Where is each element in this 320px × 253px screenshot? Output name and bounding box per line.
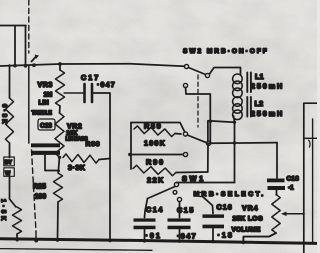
junction x210 y121 (209, 120, 212, 123)
capacitor C17 plate left (83, 84, 86, 102)
switch SW1 arm (148, 187, 176, 199)
capacitor C17 plate right (91, 84, 94, 102)
svg-text:C13: C13 (40, 123, 52, 130)
terminal box 2 (4, 168, 15, 177)
svg-text:6·8K: 6·8K (1, 104, 7, 126)
svg-text:VR4: VR4 (242, 206, 259, 213)
svg-text:250mH: 250mH (251, 82, 284, 91)
svg-text:LIN: LIN (39, 100, 50, 107)
wire node cluster horizontal y121 (208, 121, 235, 123)
junction on rail at x16 (13, 64, 17, 68)
potentiometer VR3 (56, 70, 65, 106)
resistor 6.8K (left column upper) (6, 98, 14, 143)
svg-text:R90: R90 (146, 158, 165, 167)
wire VR3 wiper to C17 (64, 92, 83, 94)
wire R89/R90 left vertical (130, 123, 132, 170)
switch contact R89 (183, 132, 187, 136)
svg-text:L1: L1 (255, 72, 264, 81)
junction node P on rail (32, 63, 36, 67)
switch SW2 pole1 contact (184, 64, 188, 68)
enclosure box right (304, 103, 317, 253)
dashed gang line SW2-SW1 (197, 75, 199, 127)
svg-text:1·5K: 1·5K (0, 199, 6, 223)
wire C14 top lead (145, 199, 148, 218)
wire common vertical up (207, 121, 209, 143)
svg-text:22K: 22K (147, 176, 165, 185)
wire VR4 bottom lead (243, 233, 276, 243)
junction x234 y143 (233, 141, 236, 144)
wire R88 right lead (99, 159, 110, 160)
resistor R88 (63, 154, 99, 163)
junction common node (207, 141, 211, 145)
wire VR2 to R25 (58, 157, 59, 173)
junction R25 / bottom rail (56, 239, 59, 242)
wire SW2 to L1 (210, 68, 241, 75)
wire common down to R90 (207, 143, 209, 172)
capacitor C13 plate bottom (31, 151, 60, 155)
wire L2/SW1 vertical (234, 122, 236, 182)
wire R90 right lead (176, 171, 208, 174)
svg-text:VR3: VR3 (38, 82, 53, 89)
wire C16 top lead (202, 196, 213, 213)
resistor R90 (133, 165, 176, 175)
wire C17 to R88 node (94, 93, 111, 158)
switch SW1 contact C15 (177, 197, 181, 201)
potentiometer VR2 (55, 113, 64, 157)
svg-text:·1: ·1 (288, 185, 294, 192)
svg-text:250mH: 250mH (251, 109, 284, 118)
switch SW2 pole2 contact (183, 83, 187, 87)
wire R90 branch (130, 154, 183, 156)
switch SW1 contact C16 (198, 192, 202, 196)
wire left column lower (10, 176, 17, 207)
resistor R89 (134, 126, 175, 137)
svg-text:C14: C14 (146, 205, 164, 214)
junction C14 / bottom rail (143, 239, 146, 242)
dashed shield line (left, upper) (28, 0, 30, 53)
resistor 1.5K (left column lower) (13, 207, 22, 234)
enclosure inner wall (312, 119, 314, 244)
switch arm to R89 (187, 135, 208, 143)
node P arrow mark (32, 57, 37, 62)
enclosure inner mark (309, 140, 311, 147)
switch SW2 pole1 arm (189, 68, 206, 75)
capacitor C18 plate bottom (268, 186, 286, 190)
junction on rail at x60 (58, 62, 62, 66)
wire C14 bottom lead (144, 229, 146, 241)
switch SW1 contact a (173, 190, 177, 194)
junction C16 / bottom rail (211, 240, 214, 243)
wire top-left stub (0, 26, 26, 66)
ground bus (bottom rail) (0, 239, 317, 244)
capacitor C13 plate top (31, 143, 60, 147)
wire VR3 to VR2 (59, 106, 62, 113)
junction on rail at x25 (24, 64, 28, 68)
switch contact R90 (183, 152, 187, 156)
wire R88 node to bottom rail (109, 159, 111, 241)
capacitor C18 plate top (267, 179, 285, 183)
svg-text:TREBLE: TREBLE (32, 111, 53, 117)
switch SW1 pivot (174, 182, 178, 186)
wire R89 right lead (175, 133, 181, 136)
junction left column / bottom rail (16, 238, 19, 241)
junction dashed line / bottom rail (34, 239, 38, 243)
wire SW2 pole2 (186, 88, 211, 144)
wire C18 to VR4 (276, 190, 278, 195)
enclosure inner divider (304, 137, 317, 139)
core L2 bar1 (246, 97, 248, 117)
capacitor C15 plate top (168, 218, 191, 221)
potentiometer VR4 (272, 195, 280, 234)
dashed shield line (left, lower) (32, 150, 37, 232)
svg-text:C16: C16 (217, 203, 233, 212)
junction R90 left (128, 153, 131, 156)
core L2 bar2 (250, 97, 252, 117)
capacitor C16 plate bottom (203, 225, 225, 229)
ground bus secondary line (0, 249, 152, 251)
wire SW1 feed (177, 182, 235, 184)
wire C15 bottom lead (179, 229, 181, 241)
svg-text:SW2 MRB·ON·OFF: SW2 MRB·ON·OFF (183, 48, 269, 55)
capacitor C16 plate top (203, 214, 225, 218)
wire rail to VR3 (59, 64, 61, 70)
junction C15 / bottom rail (178, 240, 181, 243)
wire R89 branch top (131, 123, 185, 132)
wire L2 bottom lead (234, 116, 235, 122)
resistor R25 (54, 173, 63, 202)
inductor L1 (233, 74, 243, 84)
junction VR2 / R88 (58, 156, 61, 159)
svg-text:1M: 1M (44, 92, 53, 99)
wire C16 bottom lead (212, 227, 214, 241)
svg-text:R88: R88 (86, 141, 101, 148)
svg-text:3·3K: 3·3K (68, 165, 86, 172)
terminal box BY (4, 157, 15, 166)
wiper VR4 (283, 213, 304, 215)
svg-text:R89: R89 (144, 122, 162, 131)
wire main top rail (0, 64, 185, 67)
junction R88 line / bottom rail (108, 239, 111, 242)
switch SW2 pole1 pivot (205, 73, 209, 77)
svg-text:L2: L2 (255, 99, 264, 108)
core L1 bar1 (246, 73, 248, 93)
capacitor C14 plate bottom (134, 226, 156, 230)
svg-text:·01: ·01 (146, 231, 162, 240)
svg-text:C18: C18 (287, 176, 300, 183)
capacitor C14 plate top (134, 218, 156, 221)
wire common to C18 (208, 142, 277, 145)
core L1 bar2 (250, 73, 252, 93)
wire C15 top lead (179, 202, 181, 218)
svg-text:·047: ·047 (177, 232, 197, 241)
svg-text:25K LOG: 25K LOG (233, 216, 264, 223)
wire to C18 (276, 143, 278, 178)
wire left column upper (9, 65, 11, 98)
svg-text:R25: R25 (33, 184, 46, 191)
junction VR4 / bottom rail (242, 241, 245, 244)
svg-text:C17: C17 (81, 73, 100, 82)
capacitor C15 plate bottom (168, 226, 191, 230)
wire C13 feed (28, 66, 30, 143)
svg-text:VOLUME: VOLUME (232, 227, 261, 234)
svg-text:100: 100 (35, 194, 47, 201)
svg-text:BY: BY (5, 160, 13, 166)
label box C13 (38, 119, 55, 130)
wire left column to ground rail (16, 234, 18, 240)
wire left column mid (9, 143, 11, 158)
svg-text:100K: 100K (144, 139, 166, 148)
inductor L2 (233, 97, 243, 107)
svg-text:SW1: SW1 (182, 174, 206, 183)
wire C13 bottom lead (45, 155, 58, 171)
svg-text:·047: ·047 (97, 82, 116, 89)
junction C13 lead (57, 169, 60, 172)
svg-text:C15: C15 (177, 206, 195, 215)
wire R25 to bottom rail (57, 202, 60, 240)
junction x234 y122 (233, 121, 236, 124)
